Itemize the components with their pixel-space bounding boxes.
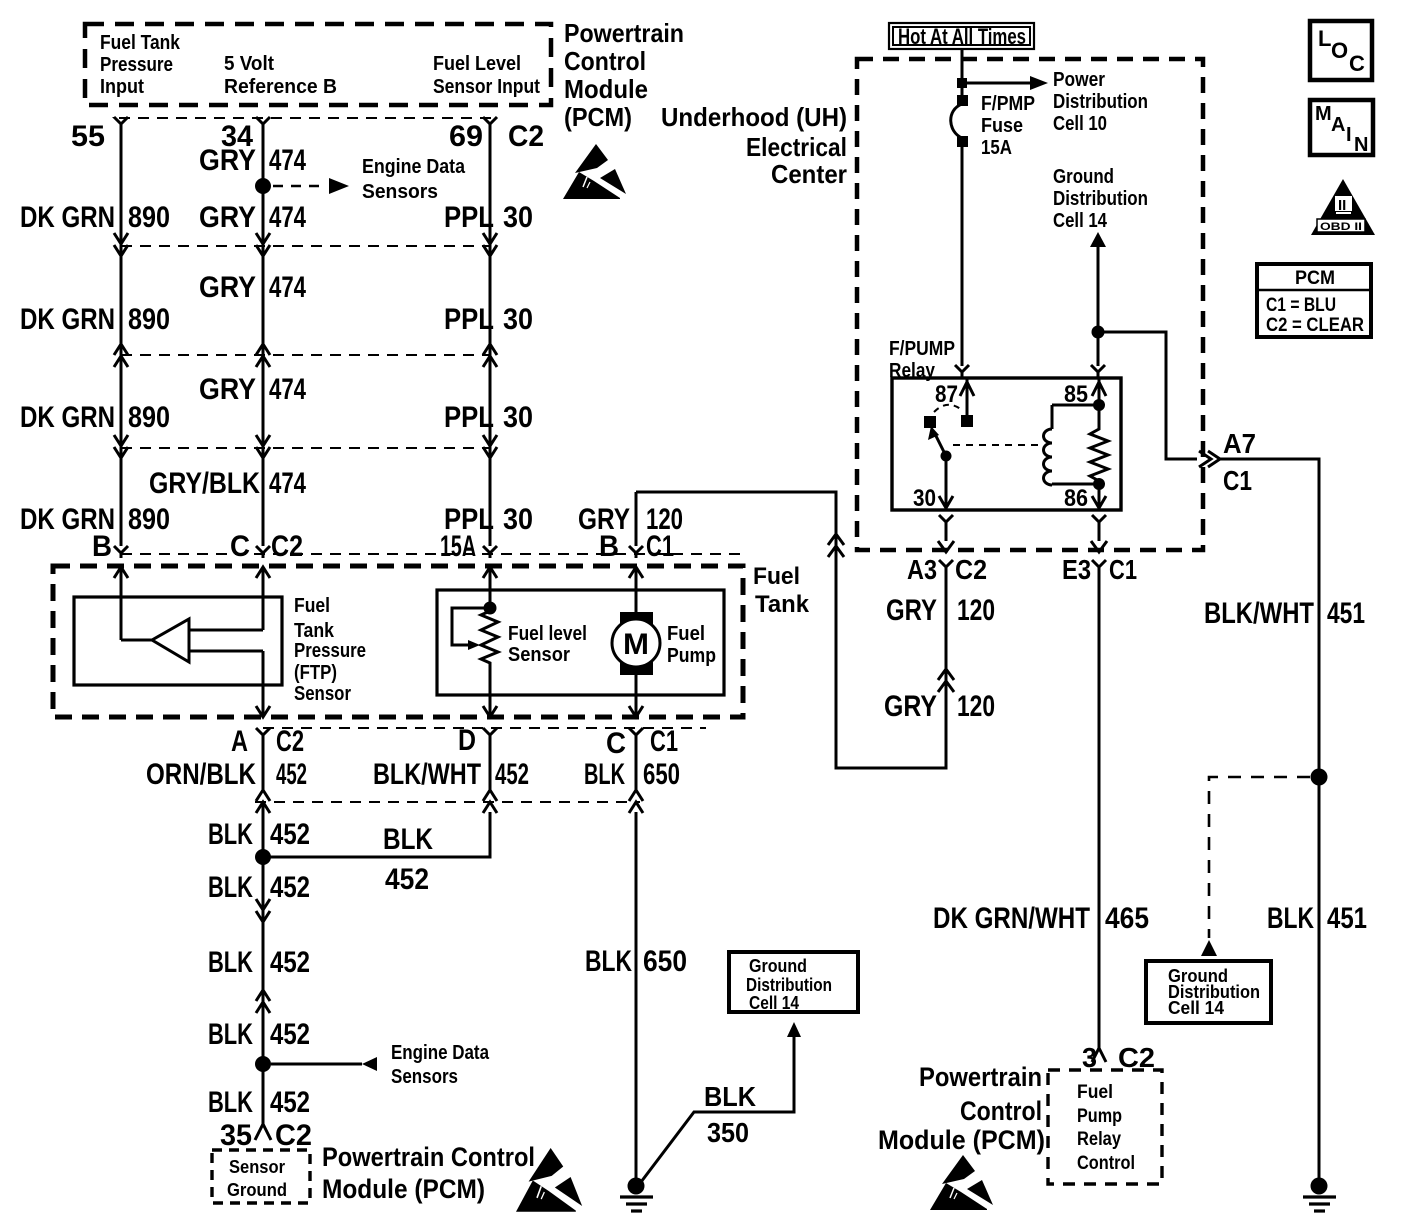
svg-text:C1: C1 <box>1223 465 1252 496</box>
relay coil bottom rail <box>1052 483 1099 486</box>
svg-text:Cell 14: Cell 14 <box>749 993 799 1013</box>
svg-text:Relay: Relay <box>1077 1129 1121 1150</box>
svg-text:BLK: BLK <box>704 1081 756 1112</box>
svg-text:II: II <box>1338 197 1346 214</box>
svg-text:N: N <box>1354 134 1368 156</box>
wire DK GRN 890 (x=121) <box>114 117 128 640</box>
svg-text:30: 30 <box>503 201 533 234</box>
ESD symbol (top) <box>563 144 626 199</box>
Hot At All Times box <box>889 23 1034 49</box>
relay switch travel arc (dashed) <box>934 405 963 412</box>
svg-text:DK GRN: DK GRN <box>20 201 115 234</box>
svg-text:Cell 10: Cell 10 <box>1053 113 1107 135</box>
fuel level sensor / pump box <box>437 590 724 695</box>
svg-text:ORN/BLK: ORN/BLK <box>146 758 256 791</box>
svg-text:474: 474 <box>269 467 306 500</box>
svg-text:452: 452 <box>270 1018 310 1051</box>
svg-text:A: A <box>1331 114 1345 136</box>
junction dot coil bottom <box>1093 478 1105 490</box>
wire fuel pump to C/C1 <box>629 546 643 790</box>
svg-text:120: 120 <box>957 690 995 723</box>
FTP sensor label <box>294 595 366 705</box>
arrow to Engine Data Sensors (bottom) <box>271 1042 490 1088</box>
svg-text:Sensors: Sensors <box>391 1066 458 1088</box>
PCM connector legend box <box>1257 264 1371 337</box>
svg-text:Control: Control <box>564 46 646 76</box>
svg-text:Ground: Ground <box>227 1180 287 1200</box>
svg-text:30: 30 <box>503 401 533 434</box>
separator dashed line below tank (terminals A D C) <box>263 727 706 729</box>
svg-text:69: 69 <box>449 120 483 153</box>
terminal B / C1 (fuel pump top) <box>599 530 674 563</box>
dashed branch to Ground Distribution Cell 14 (right) <box>1201 777 1310 956</box>
ground G1 (bottom middle) <box>620 1178 653 1212</box>
svg-text:120: 120 <box>646 503 683 536</box>
PCM module box (top left, dashed) <box>85 24 551 105</box>
wire fuel level sensor to D <box>483 665 497 790</box>
svg-text:GRY: GRY <box>884 690 937 723</box>
label PPL 30 row3 <box>444 401 533 434</box>
dashed arrow to Engine Data Sensors <box>273 156 466 203</box>
svg-text:GRY: GRY <box>886 594 937 627</box>
svg-text:Cell 14: Cell 14 <box>1168 998 1224 1018</box>
relay pin 85 <box>1064 378 1106 408</box>
label PPL 30 row4 <box>444 503 533 536</box>
svg-text:Engine Data: Engine Data <box>391 1042 490 1064</box>
svg-text:86: 86 <box>1064 485 1088 512</box>
label GRY 474 row4 <box>199 373 306 406</box>
svg-text:Pressure: Pressure <box>100 54 173 76</box>
svg-text:452: 452 <box>270 818 310 851</box>
svg-text:C: C <box>606 727 626 760</box>
svg-text:D: D <box>458 724 476 757</box>
svg-text:M: M <box>623 628 649 661</box>
wire BLK 452 (x=263 lower ladder) <box>255 802 271 1140</box>
wire branch to A7/C1 <box>1098 332 1197 459</box>
relay switch blade <box>928 426 952 462</box>
ESD symbol (bottom right) <box>930 1155 993 1210</box>
terminal A / C2 <box>231 725 304 758</box>
relay pin 87 <box>935 378 974 427</box>
terminal C / C2 (FTP sensor) <box>230 530 303 563</box>
svg-text:Powertrain: Powertrain <box>919 1062 1042 1092</box>
svg-text:BLK: BLK <box>585 945 632 978</box>
svg-text:451: 451 <box>1327 597 1365 630</box>
wire BLK 650 (x=636 to ground) <box>585 812 687 1180</box>
svg-text:890: 890 <box>128 201 170 234</box>
junction dot A7 branch <box>1092 326 1105 339</box>
svg-text:Fuel Tank: Fuel Tank <box>100 32 181 54</box>
svg-text:L: L <box>1318 26 1331 51</box>
svg-text:Reference B: Reference B <box>224 76 337 98</box>
svg-text:890: 890 <box>128 401 170 434</box>
svg-text:O: O <box>1331 38 1348 63</box>
svg-text:F/PUMP: F/PUMP <box>889 338 955 360</box>
svg-text:890: 890 <box>128 503 170 536</box>
svg-text:350: 350 <box>707 1117 749 1148</box>
svg-text:Distribution: Distribution <box>1053 91 1148 113</box>
svg-text:Sensor: Sensor <box>294 683 351 705</box>
svg-text:PPL: PPL <box>444 201 494 234</box>
label GRY 120 (top of pump wire) <box>578 503 683 536</box>
svg-text:(FTP): (FTP) <box>294 662 337 684</box>
svg-text:Fuel: Fuel <box>294 595 330 617</box>
svg-text:BLK: BLK <box>584 758 625 791</box>
terminal A3 / C2 <box>907 554 987 585</box>
separator dashed line row3 <box>121 354 490 356</box>
svg-text:Pressure: Pressure <box>294 640 366 662</box>
label BLK 650 <box>584 758 680 791</box>
svg-text:85: 85 <box>1064 381 1088 408</box>
separator dashed line row4 <box>121 447 490 449</box>
svg-text:DK GRN/WHT: DK GRN/WHT <box>933 902 1090 935</box>
junction dot coil top <box>1093 399 1105 411</box>
UH Electrical Center box (dashed) <box>857 59 1203 550</box>
junction dot engine data sensors (bottom) <box>255 1056 271 1072</box>
svg-text:DK GRN: DK GRN <box>20 401 115 434</box>
relay actuation link (dashed) <box>953 444 1040 446</box>
svg-text:C2: C2 <box>275 1119 312 1152</box>
svg-text:E3: E3 <box>1062 554 1091 585</box>
svg-text:Underhood (UH): Underhood (UH) <box>661 102 847 132</box>
arrow to Power Distribution Cell 10 <box>962 69 1148 135</box>
label DK GRN/WHT 465 <box>933 902 1149 935</box>
svg-text:Tank: Tank <box>294 620 335 642</box>
wire PPL 30 (x=490) <box>483 117 497 608</box>
svg-text:C2: C2 <box>276 725 304 758</box>
junction dot BLK 452 jog <box>255 849 271 865</box>
wire battery feed down from Hot At All Times <box>961 49 964 96</box>
svg-text:890: 890 <box>128 303 170 336</box>
Ground Distribution Cell 14 text (top) <box>1053 166 1148 232</box>
svg-text:474: 474 <box>269 373 306 406</box>
svg-text:55: 55 <box>71 120 105 153</box>
svg-text:BLK: BLK <box>208 1018 253 1051</box>
label GRY 120 row2 (right) <box>884 690 995 723</box>
relay pin 86 <box>1064 484 1106 512</box>
svg-text:A3: A3 <box>907 554 937 585</box>
svg-text:Fuel: Fuel <box>667 623 705 645</box>
relay K1 box <box>892 378 1121 510</box>
svg-text:Fuel: Fuel <box>753 563 800 590</box>
terminal A7 / C1 arrow <box>1199 428 1256 496</box>
PCM title text (top) <box>564 18 684 132</box>
wire fuse to relay pin 87 <box>955 147 969 378</box>
Ground Distribution Cell 14 box (left) <box>729 952 858 1013</box>
svg-text:F/PMP: F/PMP <box>981 93 1035 115</box>
svg-text:474: 474 <box>269 201 306 234</box>
label BLK 452 row1 <box>208 818 310 851</box>
svg-text:BLK: BLK <box>208 1086 253 1119</box>
svg-text:(PCM): (PCM) <box>564 102 632 132</box>
wire GRY 474 (x=263) <box>256 117 270 630</box>
relay pin 30 <box>913 456 953 512</box>
svg-text:Pump: Pump <box>667 645 716 667</box>
svg-text:35: 35 <box>220 1119 252 1152</box>
svg-text:GRY: GRY <box>199 271 256 304</box>
svg-text:452: 452 <box>270 871 310 904</box>
wire relay 86 to E3/C1 <box>1091 515 1107 1048</box>
svg-text:Sensor: Sensor <box>229 1157 285 1177</box>
svg-text:GRY: GRY <box>578 503 630 536</box>
svg-text:BLK: BLK <box>1267 902 1314 935</box>
label GRY 474 row2 <box>199 201 306 234</box>
Underhood (UH) Electrical Center label <box>661 102 847 189</box>
svg-text:BLK/WHT: BLK/WHT <box>373 758 481 791</box>
junction square power distribution <box>957 78 967 88</box>
PCM title text (bottom right) <box>878 1062 1045 1155</box>
svg-text:452: 452 <box>270 946 310 979</box>
svg-text:451: 451 <box>1327 902 1367 935</box>
relay resistor R1 <box>1090 405 1108 484</box>
FTP sensor box <box>74 597 282 685</box>
svg-text:Distribution: Distribution <box>746 975 832 995</box>
svg-text:474: 474 <box>269 144 306 177</box>
svg-text:A7: A7 <box>1223 428 1256 459</box>
svg-text:C1: C1 <box>1109 554 1137 585</box>
svg-text:Powertrain Control: Powertrain Control <box>322 1142 535 1172</box>
svg-text:Control: Control <box>1077 1153 1135 1174</box>
svg-text:Power: Power <box>1053 69 1105 91</box>
svg-text:BLK: BLK <box>208 946 253 979</box>
svg-text:PPL: PPL <box>444 401 494 434</box>
terminal C / C1 (fuel pump bottom) <box>606 725 678 760</box>
svg-text:Distribution: Distribution <box>1053 188 1148 210</box>
ground G2 (bottom right) <box>1303 1178 1336 1212</box>
label GRY 474 row3 <box>199 271 306 304</box>
separator dashed line below PCM <box>119 117 491 119</box>
svg-text:Sensors: Sensors <box>362 181 438 203</box>
F/PUMP Relay label <box>889 338 955 382</box>
svg-text:OBD II: OBD II <box>1320 221 1362 233</box>
svg-text:BLK: BLK <box>208 818 253 851</box>
LOC symbol box <box>1310 21 1372 80</box>
Fuel Pump Relay Control box (dashed) <box>1048 1070 1162 1184</box>
svg-text:PPL: PPL <box>444 303 494 336</box>
wire relay 30 to A3/C2 <box>938 515 954 768</box>
svg-text:15A: 15A <box>981 137 1012 159</box>
svg-text:30: 30 <box>503 503 533 536</box>
svg-text:Fuel: Fuel <box>1077 1082 1113 1103</box>
svg-text:Electrical: Electrical <box>746 132 847 162</box>
separator dashed line row2 <box>121 245 490 247</box>
svg-text:30: 30 <box>503 303 533 336</box>
relay coil top rail <box>1052 404 1099 407</box>
fuel pump motor M1 <box>612 612 716 675</box>
Sensor Ground box (dashed) <box>212 1150 310 1203</box>
svg-text:15A: 15A <box>440 530 476 563</box>
svg-text:Pump: Pump <box>1077 1106 1122 1127</box>
wire ground distribution to relay pin 85 <box>1091 247 1105 378</box>
svg-text:GRY: GRY <box>199 201 256 234</box>
svg-text:A: A <box>231 725 248 758</box>
svg-text:C2: C2 <box>271 530 303 563</box>
svg-text:452: 452 <box>276 758 307 791</box>
svg-text:650: 650 <box>643 758 680 791</box>
svg-text:452: 452 <box>270 1086 310 1119</box>
svg-text:PCM: PCM <box>1295 268 1335 289</box>
ESD symbol (bottom left) <box>516 1148 582 1212</box>
svg-text:C1 = BLU: C1 = BLU <box>1266 295 1336 316</box>
svg-text:Hot At All Times: Hot At All Times <box>898 24 1026 49</box>
relay coil L1 <box>1044 405 1053 485</box>
svg-text:C2: C2 <box>955 554 987 585</box>
svg-text:Sensor Input: Sensor Input <box>433 76 540 98</box>
label GRY/BLK 474 <box>149 467 306 500</box>
label BLK 452 row3 <box>208 946 310 979</box>
svg-text:120: 120 <box>957 594 995 627</box>
svg-text:452: 452 <box>385 863 429 896</box>
label BLK 452 row2 <box>208 871 310 904</box>
svg-text:I: I <box>1346 124 1352 146</box>
wire BLK/WHT 451 <box>1204 459 1365 1180</box>
svg-text:5 Volt: 5 Volt <box>224 53 274 75</box>
label DK GRN 890 row4 <box>20 503 170 536</box>
wire BLK 350 <box>641 1022 801 1182</box>
svg-text:C2 = CLEAR: C2 = CLEAR <box>1266 315 1364 336</box>
Ground Distribution Cell 14 box (right) <box>1146 961 1271 1023</box>
svg-text:Module (PCM): Module (PCM) <box>322 1174 485 1204</box>
label GRY 120 row1 (right) <box>886 594 995 627</box>
svg-text:BLK: BLK <box>208 871 253 904</box>
label PPL 30 row2 <box>444 303 533 336</box>
arrow from Ground Distribution Cell 14 <box>1090 232 1106 247</box>
wire GRY 120 loop from relay 30 to fuel pump <box>636 492 954 768</box>
svg-text:Control: Control <box>960 1096 1042 1126</box>
svg-text:C2: C2 <box>508 120 544 153</box>
relay switch contact <box>924 416 936 428</box>
svg-text:C1: C1 <box>650 725 678 758</box>
svg-text:Module (PCM): Module (PCM) <box>878 1125 1045 1155</box>
fuel level sensor resistor <box>452 602 587 667</box>
svg-text:Module: Module <box>564 74 648 104</box>
label BLK 452 row5 <box>208 1086 310 1119</box>
label DK GRN 890 row1 <box>20 201 170 234</box>
svg-text:B: B <box>92 530 112 563</box>
label DK GRN 890 row2 <box>20 303 170 336</box>
svg-text:Ground: Ground <box>749 956 807 976</box>
label GRY 474 row1 <box>199 144 306 177</box>
label BLK 451 <box>1267 902 1367 935</box>
svg-text:BLK: BLK <box>383 823 433 856</box>
svg-text:Ground: Ground <box>1053 166 1114 188</box>
Fuel Tank box (dashed) <box>53 563 810 717</box>
label PPL 30 row1 <box>444 201 533 234</box>
svg-text:GRY/BLK: GRY/BLK <box>149 467 260 500</box>
label ORN/BLK 452 <box>146 758 307 791</box>
svg-text:474: 474 <box>269 271 306 304</box>
pin 3 / C2 (PCM fuel pump relay control) <box>1082 1042 1155 1073</box>
svg-text:C: C <box>1349 51 1365 76</box>
chevrons at separator 802 <box>256 790 643 813</box>
svg-text:Tank: Tank <box>755 591 810 618</box>
svg-text:30: 30 <box>913 485 936 512</box>
label BLK/WHT 452 <box>373 758 529 791</box>
svg-text:M: M <box>1315 103 1332 125</box>
svg-text:465: 465 <box>1105 902 1149 935</box>
wire BLK 452 horizontal jog <box>263 812 490 896</box>
svg-text:452: 452 <box>495 758 529 791</box>
junction dot engine data sensors (top) <box>255 178 271 194</box>
fuse F/PMP 15A <box>951 93 1035 159</box>
svg-text:Center: Center <box>771 159 847 189</box>
svg-text:650: 650 <box>643 945 687 978</box>
junction dot BLK 451 <box>1311 769 1328 786</box>
svg-text:Fuse: Fuse <box>981 115 1023 137</box>
svg-text:Engine Data: Engine Data <box>362 156 466 178</box>
svg-text:Powertrain: Powertrain <box>564 18 684 48</box>
svg-text:BLK/WHT: BLK/WHT <box>1204 597 1314 630</box>
label BLK 452 row4 <box>208 1018 310 1051</box>
svg-text:GRY: GRY <box>199 144 256 177</box>
svg-text:C: C <box>230 530 250 563</box>
svg-text:Fuel Level: Fuel Level <box>433 53 521 75</box>
OBD II symbol <box>1311 179 1375 235</box>
svg-text:Input: Input <box>100 76 144 98</box>
svg-text:Cell 14: Cell 14 <box>1053 210 1108 232</box>
label DK GRN 890 row3 <box>20 401 170 434</box>
svg-text:DK GRN: DK GRN <box>20 303 115 336</box>
FTP sensor amplifier triangle U1 <box>121 619 263 662</box>
terminal E3 / C1 <box>1062 554 1137 585</box>
pin 35 / C2 <box>220 1119 312 1152</box>
PCM title text (bottom left) <box>322 1142 535 1204</box>
separator dashed line y=802 <box>255 801 640 803</box>
wire FTP sensor output to A/C2 <box>256 651 270 790</box>
MAIN symbol box <box>1310 100 1373 156</box>
svg-text:Fuel level: Fuel level <box>508 623 587 645</box>
svg-text:Sensor: Sensor <box>508 644 570 666</box>
svg-text:GRY: GRY <box>199 373 256 406</box>
separator dashed line above fuel tank <box>121 553 745 555</box>
